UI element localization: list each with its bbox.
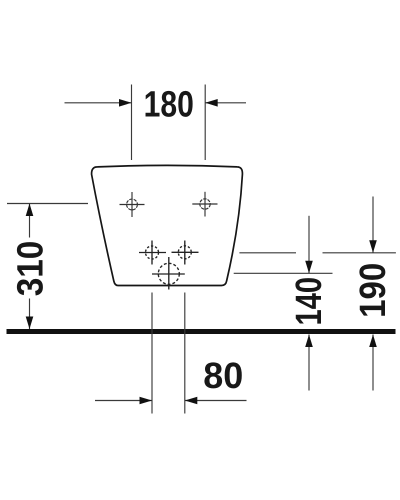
svg-text:190: 190 (352, 263, 393, 318)
svg-text:80: 80 (203, 355, 243, 396)
svg-text:310: 310 (10, 241, 51, 297)
svg-text:140: 140 (288, 277, 329, 326)
svg-text:180: 180 (144, 84, 194, 125)
